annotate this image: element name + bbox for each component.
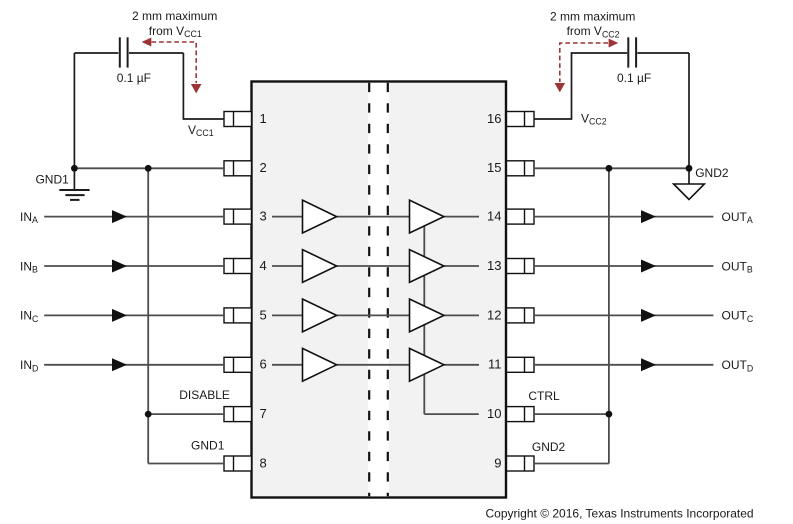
svg-text:11: 11: [488, 357, 502, 372]
svg-text:13: 13: [487, 258, 501, 273]
svg-text:9: 9: [494, 455, 501, 470]
svg-text:2 mm maximum: 2 mm maximum: [550, 9, 635, 23]
svg-text:GND1: GND1: [191, 439, 225, 453]
svg-text:15: 15: [487, 160, 501, 175]
svg-text:CTRL: CTRL: [528, 389, 560, 403]
svg-text:16: 16: [487, 111, 501, 126]
svg-text:2: 2: [260, 160, 267, 175]
svg-text:1: 1: [260, 111, 267, 126]
svg-text:7: 7: [260, 406, 267, 421]
svg-text:12: 12: [487, 307, 501, 322]
svg-text:GND1: GND1: [35, 172, 69, 186]
svg-text:0.1 µF: 0.1 µF: [117, 71, 151, 85]
svg-text:GND2: GND2: [695, 166, 729, 180]
svg-text:2 mm maximum: 2 mm maximum: [132, 9, 217, 23]
svg-text:Copyright © 2016, Texas Instru: Copyright © 2016, Texas Instruments Inco…: [486, 506, 754, 520]
svg-text:DISABLE: DISABLE: [179, 388, 230, 402]
svg-text:0.1 µF: 0.1 µF: [617, 71, 651, 85]
svg-text:5: 5: [260, 307, 267, 322]
svg-text:3: 3: [260, 209, 267, 224]
svg-text:8: 8: [260, 455, 267, 470]
svg-text:14: 14: [487, 209, 501, 224]
svg-text:10: 10: [487, 406, 501, 421]
svg-text:GND2: GND2: [532, 440, 566, 454]
svg-text:4: 4: [260, 258, 267, 273]
svg-text:6: 6: [260, 357, 267, 372]
